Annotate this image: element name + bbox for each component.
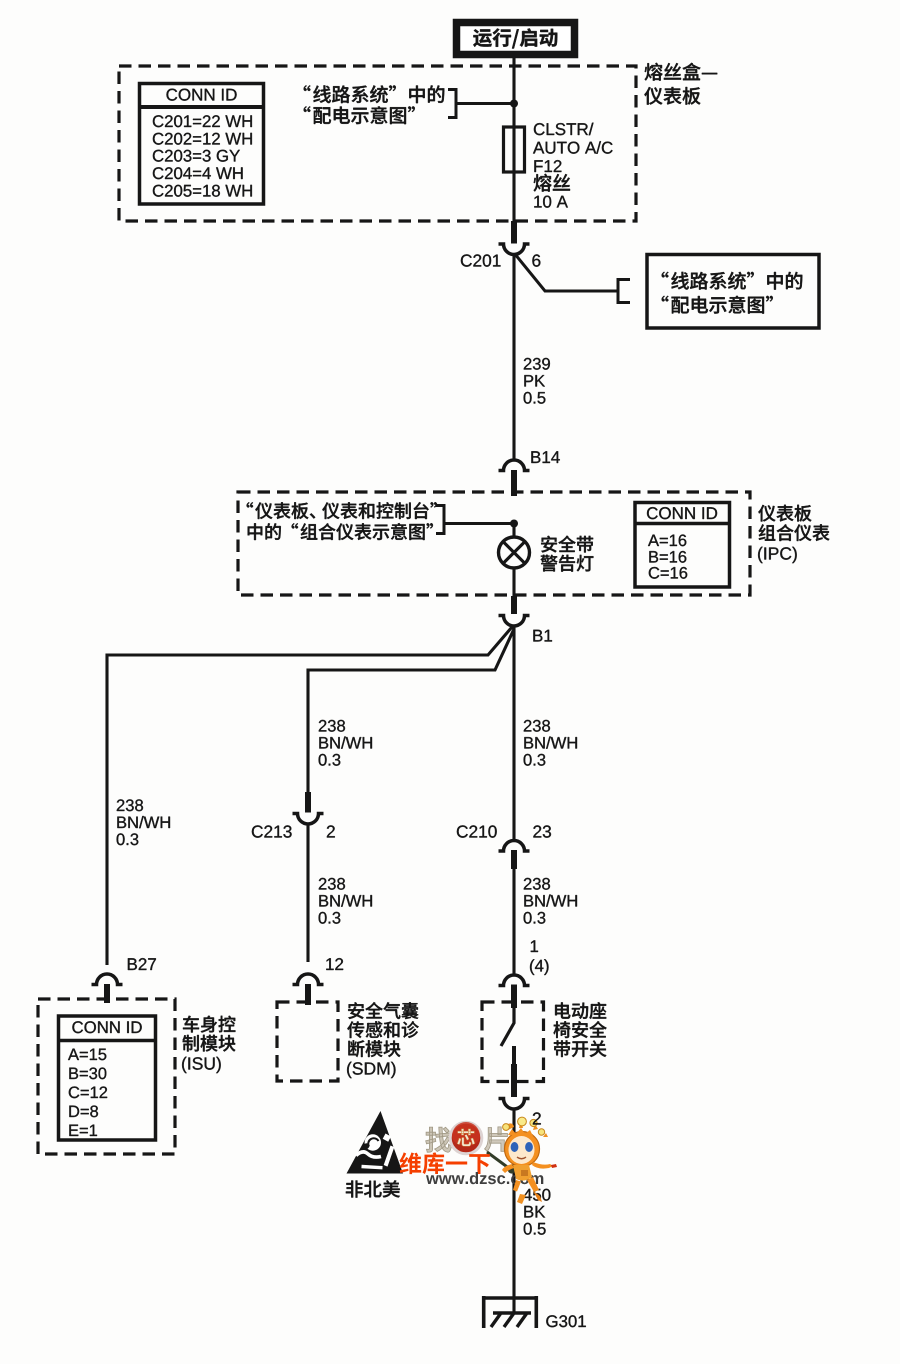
connector B27 male stub <box>104 984 110 1003</box>
label G301 <box>546 1315 586 1327</box>
connector B1 half <box>499 616 530 627</box>
watermark 片 <box>485 1127 508 1152</box>
ISU dashed outline 车身控制模块 <box>38 999 175 1154</box>
label 238 BN/WH 0.3 (middle upper) <box>319 720 372 766</box>
label 断模块 <box>348 1040 400 1057</box>
wire B1 to left branch (to B27) <box>107 627 512 965</box>
label 非北美 <box>346 1180 400 1197</box>
connector C213 male stub <box>305 792 311 813</box>
SDM dashed outline 安全气囊传感和诊断模块 <box>277 1002 338 1081</box>
watermark magnifier lens with 芯 <box>450 1122 515 1174</box>
label 制模块 <box>183 1035 236 1052</box>
ground G301 symbol <box>482 1296 538 1328</box>
label connector id rows <box>153 115 252 196</box>
switch blade (seat belt switch, open) <box>501 1008 514 1046</box>
switch output stub through box <box>511 1064 517 1097</box>
connector B14 half <box>499 460 530 471</box>
label 安全带 <box>541 536 593 553</box>
label 安全气囊 <box>348 1002 418 1019</box>
connector B27 half <box>92 974 123 984</box>
label IPC conn rows <box>648 535 687 579</box>
watermark www.dzsc.com <box>426 1172 543 1184</box>
label 450 BK 0.5 <box>523 1189 550 1235</box>
power source box 运行/启动 (RUN/START) <box>457 23 575 55</box>
label fuse name/value <box>533 123 613 208</box>
label C210 <box>457 825 497 837</box>
warning triangle 非北美 (non-North-America) symbol <box>347 1111 404 1174</box>
label 熔丝 <box>534 174 570 192</box>
pin 12 of SDM <box>326 958 343 970</box>
wire C201 branch to note <box>515 254 619 292</box>
fuse F12 CLSTR/AUTO A/C 10A <box>504 127 525 172</box>
watermark 维库一下 <box>400 1152 490 1174</box>
note right “线路系统”中的 <box>662 272 803 290</box>
label B1 <box>533 630 552 642</box>
label CONN ID header <box>167 89 237 101</box>
switch lower contact <box>512 1046 516 1066</box>
label 传感和诊 <box>347 1021 419 1038</box>
note “线路系统”中的 <box>304 85 445 103</box>
label B27 <box>128 958 156 970</box>
wire junction to lamp <box>512 524 515 538</box>
label 仪表板 <box>644 87 700 105</box>
label 熔丝盒— <box>645 63 718 81</box>
label (IPC) <box>758 547 797 563</box>
pin 2 below switch <box>533 1112 541 1124</box>
bracket into note box <box>618 280 630 303</box>
label ISU conn rows <box>68 1049 107 1136</box>
pin 23 of C210 <box>533 825 551 837</box>
fuse block dashed outline 熔丝盒-仪表板 <box>119 66 636 221</box>
connector below switch <box>499 1099 530 1110</box>
connector C210 half <box>499 841 530 851</box>
junction on run/start feed <box>510 100 518 108</box>
connector C201 male stub <box>511 221 517 244</box>
label 警告灯 <box>541 555 594 572</box>
IPC dashed outline 仪表板组合仪表 <box>238 492 750 595</box>
bracket from note to wire <box>448 90 514 118</box>
note “配电示意图” <box>304 106 415 124</box>
label 椅安全 <box>554 1021 607 1038</box>
label 车身控 <box>183 1016 235 1033</box>
wire C213 to SDM <box>306 824 309 962</box>
note box 配电示意图 (right) <box>647 255 819 329</box>
bracket from IPC note to wire <box>436 506 514 534</box>
wire lamp to B1 <box>512 569 515 598</box>
label 带开关 <box>554 1040 607 1057</box>
wire 运行/启动 to fuse <box>512 58 515 222</box>
wire C210 to switch <box>512 869 515 975</box>
note box CONN ID (IPC) <box>635 503 730 588</box>
CONN ID 3 header divider <box>60 1039 154 1043</box>
watermark mascot (chip cartoon) <box>502 1117 557 1204</box>
connector C201 half <box>499 244 530 255</box>
CONN ID table header divider <box>141 105 262 109</box>
label 电动座 <box>555 1002 606 1019</box>
connector B1 male stub <box>511 596 517 614</box>
pin 1 (4) of switch <box>530 940 549 975</box>
note box CONN ID (fuse block) <box>140 84 264 205</box>
wire 239 PK 0.5 <box>512 255 515 460</box>
pin 2 of C213 <box>327 825 335 837</box>
note 仪表板仪表和控制台 <box>247 502 437 519</box>
switch pin 1 male stub <box>511 985 517 1009</box>
watermark logo 找芯片 <box>426 1127 452 1152</box>
note box CONN ID (ISU) <box>59 1016 156 1140</box>
label 组合仪表 <box>759 524 830 541</box>
label 239 PK 0.5 <box>524 358 550 404</box>
label 238 BN/WH 0.3 (right upper) <box>524 720 577 766</box>
label C201 <box>461 254 501 266</box>
CONN ID 2 header divider <box>636 522 728 526</box>
label 仪表板 (IPC) <box>758 505 811 522</box>
connector at switch pin 1 <box>499 975 530 985</box>
connector C210 male stub <box>511 850 517 869</box>
wire B1 to right branch (to C210) <box>512 627 515 841</box>
SDM pin 12 male stub <box>305 984 311 1005</box>
label B14 <box>531 451 559 463</box>
label C213 <box>252 825 292 837</box>
label (SDM) <box>347 1062 395 1078</box>
note 组合仪表示意图 <box>248 523 433 540</box>
label (ISU) <box>182 1057 221 1073</box>
connector C213 half <box>293 814 324 825</box>
label 238 BN/WH 0.3 (left) <box>117 799 170 845</box>
wire B1 to middle branch (to C213) <box>308 629 514 793</box>
label 运行/启动 <box>473 28 557 48</box>
indicator lamp 安全带警告灯 (seat belt warning) <box>499 537 530 568</box>
connector B14 male stub <box>511 470 517 496</box>
connector at SDM pin 12 <box>293 974 324 984</box>
note right “配电示意图” <box>662 296 773 314</box>
junction at seat belt lamp <box>510 520 518 528</box>
label CONN ID 3 header <box>72 1021 141 1033</box>
pin 6 of C201 <box>532 254 540 266</box>
label 238 BN/WH 0.3 (middle lower) <box>319 878 372 924</box>
label CONN ID 2 header <box>647 507 717 519</box>
wire 450 BK 0.5 <box>512 1110 515 1314</box>
label 238 BN/WH 0.3 (right lower) <box>524 878 577 924</box>
switch dashed outline 电动座椅安全带开关 <box>482 1002 544 1082</box>
